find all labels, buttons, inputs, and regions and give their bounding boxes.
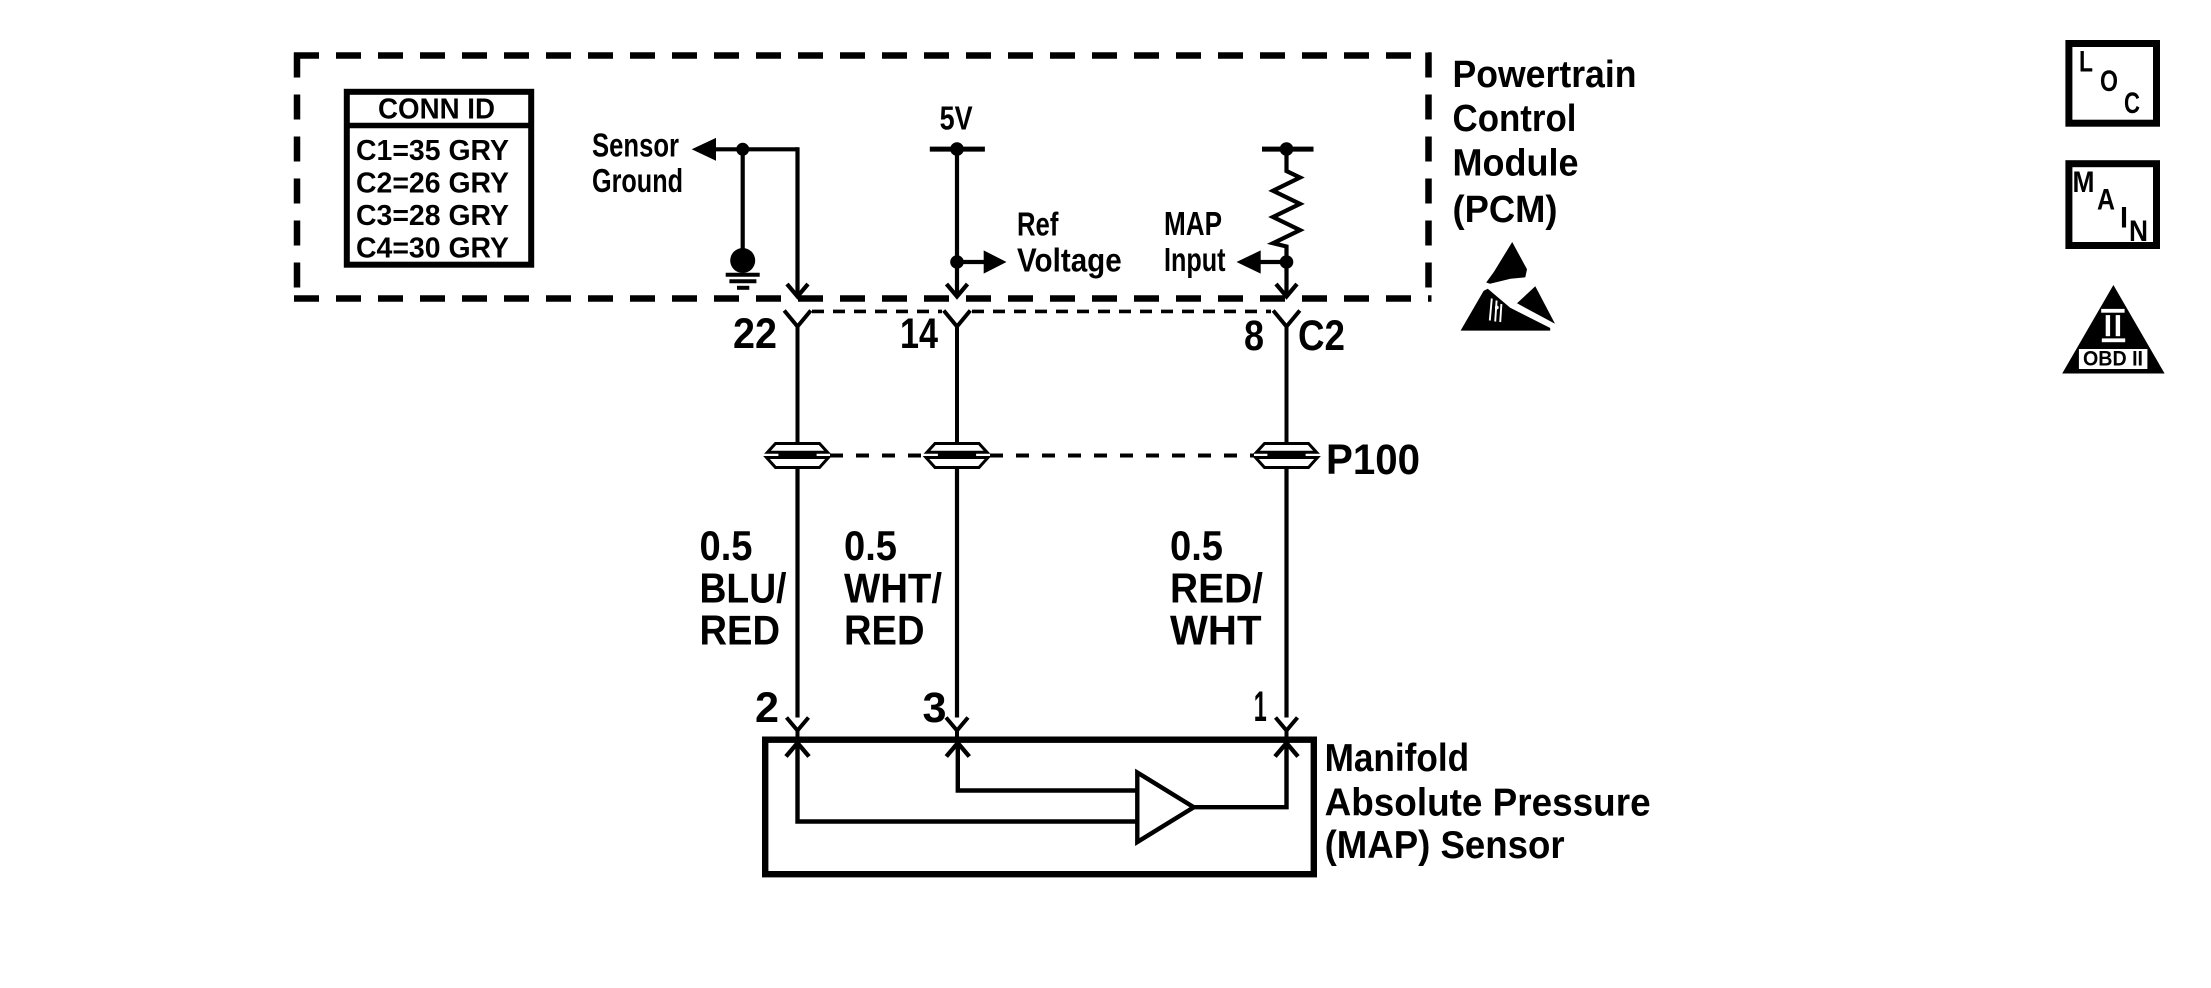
svg-text:Ref: Ref [1017,206,1059,243]
svg-text:C: C [2124,87,2140,120]
LOC reference box [2069,44,2157,124]
ground symbol (ball + bars) [726,248,760,288]
svg-text:0.5: 0.5 [700,522,753,569]
P100 dashed link line [830,454,924,458]
svg-text:1: 1 [1254,683,1267,731]
arrowhead Sensor Ground (points left) [692,138,716,161]
svg-text:3: 3 [923,684,947,732]
svg-text:Manifold: Manifold [1325,737,1470,780]
svg-text:22: 22 [733,310,777,358]
wire: 5V vertical inside PCM [955,149,959,294]
wire: sensor ground horizontal [714,147,798,151]
svg-text:RED: RED [700,607,781,654]
internal arrow pin 3 (points up) [946,743,969,757]
svg-text:Control: Control [1453,98,1577,140]
svg-text:CONN ID: CONN ID [378,94,495,126]
svg-text:Input: Input [1164,241,1226,278]
internal arrow pin 1 (points up) [1275,743,1298,757]
svg-text:C2=26 GRY: C2=26 GRY [356,168,509,200]
svg-text:2: 2 [755,684,779,732]
CONN ID table box [347,92,531,265]
Y connector wire 8 [1273,311,1300,444]
svg-text:C2: C2 [1298,312,1345,360]
Y connector wire 14 [944,311,971,444]
wire: ground branch vertical [741,149,745,249]
chevron arrow down at PCM exit wire 14 [947,284,968,297]
svg-text:BLU/: BLU/ [700,565,787,612]
wire: MAP input vertical to PCM edge [1284,262,1288,294]
chevron arrow down at PCM exit wire 22 [787,284,808,297]
junction dot ref voltage [950,255,964,269]
P100 inline connector on wire 8 [1256,444,1318,468]
resistor top bar [1262,147,1314,152]
connector C2 thin dashed line [812,310,942,314]
svg-text:L: L [2079,45,2093,78]
wire 8 below P100 [1284,468,1288,718]
arrowhead Ref Voltage (points right) [984,250,1007,273]
svg-text:O: O [2100,65,2118,98]
junction dot resistor top [1280,142,1294,156]
wire: pin 22 vertical inside PCM [795,147,799,294]
svg-text:N: N [2129,215,2148,248]
svg-text:WHT/: WHT/ [844,565,942,612]
op-amp triangle [1137,773,1194,843]
OBD II symbol (triangle) [2062,285,2164,374]
svg-text:Powertrain: Powertrain [1453,54,1637,96]
svg-text:5V: 5V [940,100,973,137]
Y connector wire 22 [784,311,811,444]
svg-text:MAP: MAP [1164,205,1222,242]
svg-text:Absolute Pressure: Absolute Pressure [1325,782,1651,825]
svg-text:Voltage: Voltage [1017,242,1122,279]
arrowhead MAP Input (points left) [1237,250,1261,273]
svg-text:P100: P100 [1326,436,1420,484]
svg-text:(PCM): (PCM) [1453,189,1558,231]
wire 14 below P100 [955,468,959,718]
svg-text:0.5: 0.5 [844,522,897,569]
MAP sensor box [765,740,1314,875]
svg-text:14: 14 [900,310,938,358]
Y connector MAP sensor pin 2 [787,718,809,738]
MAIN reference box [2069,164,2157,248]
5V supply bar [930,147,985,152]
ESD susceptibility symbol [1461,242,1555,331]
junction dot 5V [950,142,964,156]
svg-text:RED: RED [844,607,925,654]
internal arrow pin 2 (points up) [786,743,809,757]
internal wire op-amp output to pin 1 [1194,743,1287,807]
CONN ID table header separator [347,123,531,129]
svg-text:M: M [2073,166,2095,199]
svg-text:Ground: Ground [592,162,683,199]
PCM dashed boundary box [294,53,1432,302]
resistor R (zigzag) [1273,149,1300,262]
wire: MAP input stub [1259,260,1287,264]
Y connector MAP sensor pin 1 [1276,718,1298,738]
chevron arrow down at PCM exit wire 8 [1276,284,1297,297]
svg-text:(MAP) Sensor: (MAP) Sensor [1325,824,1565,867]
svg-text:C4=30 GRY: C4=30 GRY [356,232,509,264]
P100 inline connector on wire 22 [767,444,829,468]
wire 22 below P100 [795,468,799,718]
P100 inline connector on wire 14 [926,444,988,468]
internal wire pin 2 [798,743,1138,822]
svg-text:8: 8 [1244,312,1264,360]
svg-text:A: A [2097,184,2115,217]
Y connector MAP sensor pin 3 [946,718,968,738]
wire: ref voltage stub [957,260,985,264]
svg-text:0.5: 0.5 [1170,522,1223,569]
svg-text:I: I [2120,202,2128,235]
junction dot on sensor ground wire [736,143,749,156]
internal wire pin 3 [958,743,1138,791]
svg-text:Sensor: Sensor [592,127,679,164]
svg-text:RED/: RED/ [1170,565,1263,612]
junction dot MAP input [1280,255,1294,269]
svg-text:WHT: WHT [1170,607,1262,654]
svg-text:C3=28 GRY: C3=28 GRY [356,200,509,232]
svg-text:OBD II: OBD II [2083,348,2143,371]
svg-text:Module: Module [1453,143,1579,185]
svg-text:C1=35 GRY: C1=35 GRY [356,135,509,167]
